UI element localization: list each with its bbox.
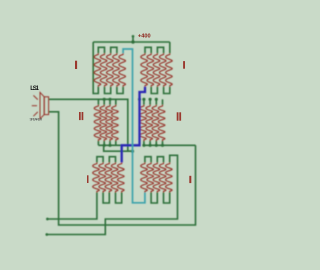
svg-text:SPEAKER: SPEAKER [30, 117, 43, 121]
svg-text:LS1: LS1 [30, 86, 39, 92]
svg-text:+400: +400 [138, 34, 151, 40]
